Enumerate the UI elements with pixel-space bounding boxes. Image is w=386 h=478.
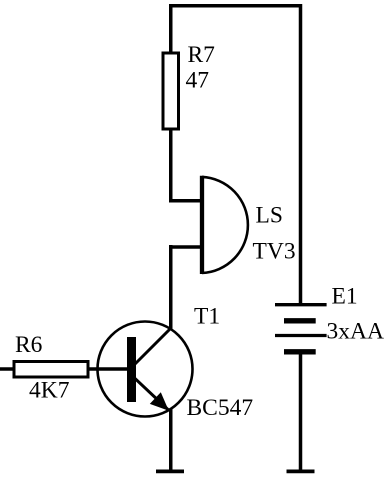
svg-text:4K7: 4K7 — [29, 378, 70, 404]
svg-text:TV3: TV3 — [253, 239, 296, 265]
svg-text:R6: R6 — [15, 332, 43, 358]
svg-text:3xAA: 3xAA — [327, 318, 384, 344]
svg-text:E1: E1 — [332, 284, 358, 310]
svg-text:LS: LS — [256, 203, 283, 229]
svg-text:T1: T1 — [194, 303, 220, 329]
svg-text:47: 47 — [186, 67, 210, 93]
svg-text:BC547: BC547 — [187, 395, 254, 421]
svg-text:R7: R7 — [188, 42, 216, 68]
